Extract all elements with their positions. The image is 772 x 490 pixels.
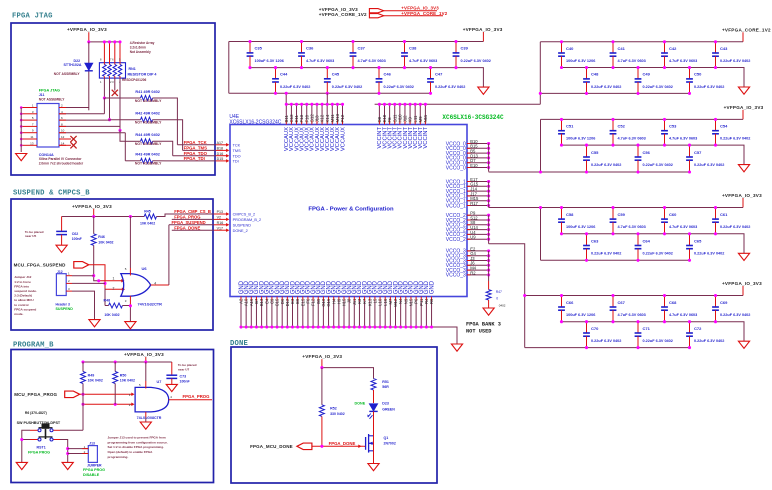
svg-text:R16: R16: [217, 221, 224, 225]
svg-text:E10: E10: [470, 163, 478, 168]
wire program top rail: [81, 360, 171, 363]
power net label +VFPGA_IO_3V3: [724, 105, 764, 120]
svg-text:near U5: near U5: [25, 234, 37, 238]
note to be placed near U5: [25, 230, 44, 238]
svg-text:4.7uF 6.3V 0603: 4.7uF 6.3V 0603: [618, 59, 646, 63]
svg-text:4.7uF 6.3V 0603: 4.7uF 6.3V 0603: [358, 59, 386, 63]
note jumper J13 usage: [108, 435, 168, 459]
svg-text:+VFPGA_IO_3V3: +VFPGA_IO_3V3: [302, 354, 342, 359]
wire FPGA pin TDI: [216, 157, 239, 163]
svg-text:R45: R45: [144, 209, 151, 213]
resistor R51: [371, 379, 389, 403]
svg-text:FPGA BANK 3: FPGA BANK 3: [466, 321, 501, 327]
ground symbol C73: [166, 384, 177, 391]
svg-text:FPGA_TDI: FPGA_TDI: [184, 156, 205, 161]
GND pin names and numbers: [239, 280, 436, 307]
wire top power rail: [525, 295, 743, 297]
capacitor C40: [558, 40, 595, 69]
svg-text:4.7uF 6.3V 0603: 4.7uF 6.3V 0603: [669, 137, 697, 141]
svg-text:2:3 (Default): 2:3 (Default): [14, 294, 32, 298]
svg-text:14: 14: [61, 141, 65, 145]
wire bottom power rail: [541, 259, 690, 261]
svg-text:C49: C49: [643, 72, 651, 77]
svg-text:N11: N11: [423, 114, 428, 122]
note to be placed near U7: [178, 363, 197, 371]
capacitor C67: [610, 294, 646, 323]
capacitor C58: [558, 206, 595, 235]
svg-text:C67: C67: [618, 300, 626, 305]
wire VCCAUX pin stubs: [285, 103, 344, 125]
svg-text:MCU_FPGA_PROG: MCU_FPGA_PROG: [14, 392, 57, 397]
svg-text:D22: D22: [74, 59, 81, 63]
svg-text:R9: R9: [429, 298, 434, 304]
svg-text:2.0mm 7x2 shrouded header: 2.0mm 7x2 shrouded header: [39, 162, 84, 166]
svg-text:4.7uF 6.3V 0603: 4.7uF 6.3V 0603: [618, 225, 646, 229]
wire ground mid rail: [562, 234, 745, 254]
capacitor C63: [583, 232, 621, 262]
svg-text:4.7uF 6.3V 0603: 4.7uF 6.3V 0603: [618, 137, 646, 141]
svg-text:C47: C47: [435, 72, 443, 77]
svg-text:D15: D15: [217, 157, 224, 161]
svg-text:4-Resistor Array: 4-Resistor Array: [130, 41, 155, 45]
svg-text:C54: C54: [720, 124, 728, 129]
svg-text:R43 49R 0402: R43 49R 0402: [135, 153, 160, 157]
svg-text:0.22uF 6.3V 0402: 0.22uF 6.3V 0402: [694, 85, 724, 89]
wire FPGA pin PROGRAM_B_2: [214, 216, 262, 222]
svg-text:0.22uF 6.3V 0402: 0.22uF 6.3V 0402: [384, 85, 414, 89]
wire done top rail: [320, 366, 373, 379]
capacitor C39: [453, 40, 491, 69]
svg-text:C72: C72: [694, 326, 702, 331]
svg-text:C52: C52: [618, 124, 626, 129]
wire riser pin6 to R42 row: [109, 119, 111, 121]
capacitor C70: [583, 320, 621, 349]
svg-text:U7: U7: [157, 380, 162, 384]
svg-text:C63: C63: [591, 238, 599, 243]
wire left vertical power link: [539, 42, 541, 94]
wire bottom power rail: [229, 92, 431, 94]
wire bottom power rail: [540, 92, 689, 94]
svg-text:3.2x1.6mm: 3.2x1.6mm: [130, 46, 146, 50]
capacitor C42: [661, 40, 697, 69]
svg-text:C68: C68: [669, 300, 677, 305]
svg-text:RESISTOR DIP 4: RESISTOR DIP 4: [128, 72, 158, 76]
capacitor C43: [712, 40, 750, 69]
svg-text:R48: R48: [104, 298, 111, 302]
wire riser pin10 to R43 row: [124, 133, 126, 161]
svg-text:VCCAUX: VCCAUX: [340, 127, 346, 151]
wire R50 leg: [114, 384, 116, 405]
wire GND collector rail: [241, 327, 457, 344]
svg-text:0.22uF 6.3V 0402: 0.22uF 6.3V 0402: [280, 85, 310, 89]
svg-text:XC6SLX16-3CSG324C: XC6SLX16-3CSG324C: [442, 114, 504, 121]
svg-text:XC6SLX16-2CSG324C: XC6SLX16-2CSG324C: [229, 119, 281, 125]
svg-text:P12: P12: [340, 114, 345, 122]
note jumper J12 usage: [14, 275, 37, 316]
capacitor C59: [610, 206, 646, 235]
wire R44 to output row: [153, 141, 173, 155]
svg-text:RN1: RN1: [129, 67, 136, 71]
no-connect X on RN1 pin: [112, 90, 118, 96]
svg-text:TDI: TDI: [233, 160, 239, 164]
wire gate input 2 row: [81, 403, 134, 407]
svg-text:0.22uF 6.3V 0402: 0.22uF 6.3V 0402: [591, 339, 621, 343]
connector J11 left pins: [20, 104, 37, 153]
svg-text:VCCO_2: VCCO_2: [446, 237, 466, 243]
svg-text:12: 12: [61, 135, 65, 139]
wire top power rail: [229, 41, 484, 43]
ground symbol CORE bank: [738, 87, 749, 94]
ground symbol Q1: [368, 464, 379, 471]
svg-text:PROGRAM_B_2: PROGRAM_B_2: [233, 218, 262, 222]
wire RN1 output stubs: [103, 78, 122, 132]
svg-text:0.22uF 6.3V 0402: 0.22uF 6.3V 0402: [694, 163, 724, 167]
capacitor C57: [686, 144, 724, 174]
svg-text:C40: C40: [566, 46, 574, 51]
svg-text:DISABLE: DISABLE: [83, 473, 100, 477]
svg-text:FPGA JTAG: FPGA JTAG: [39, 89, 60, 93]
wire top power rail: [540, 41, 743, 43]
ground symbol switch right: [62, 462, 73, 469]
connector J11 labels: [39, 89, 66, 102]
svg-text:MCU_FPGA_SUSPEND: MCU_FPGA_SUSPEND: [14, 263, 67, 268]
svg-text:4.7uF 6.3V 0603: 4.7uF 6.3V 0603: [669, 225, 697, 229]
svg-text:C66: C66: [566, 300, 574, 305]
svg-text:+VFPGA_CORE_1V2: +VFPGA_CORE_1V2: [319, 12, 367, 17]
svg-text:1: 1: [113, 276, 115, 280]
svg-text:PROGRAM_B: PROGRAM_B: [13, 342, 54, 350]
svg-text:programming.: programming.: [108, 455, 129, 459]
svg-text:C56: C56: [643, 150, 651, 155]
svg-text:10K 0402: 10K 0402: [140, 222, 155, 226]
svg-text:4.7uF 6.3V 0603: 4.7uF 6.3V 0603: [669, 313, 697, 317]
svg-text:11: 11: [30, 135, 33, 139]
capacitor C65: [686, 232, 724, 262]
svg-text:C59: C59: [618, 212, 626, 217]
wire switch left to ground: [20, 430, 30, 462]
net label FPGA_PROG output: [169, 394, 212, 400]
net label FPGA_TCK: [177, 140, 215, 145]
section box FPGA JTAG: [11, 23, 215, 175]
svg-text:C71: C71: [643, 326, 651, 331]
svg-text:C46: C46: [384, 72, 392, 77]
resistor R50: [113, 362, 135, 384]
resistor R42: [110, 112, 163, 125]
wire VCCO_3 pin stubs and bus: [446, 246, 490, 281]
svg-text:D16: D16: [217, 152, 224, 156]
wire VCCINT rail: [375, 103, 541, 105]
svg-text:FPGA_TMS: FPGA_TMS: [184, 146, 208, 151]
svg-text:C60: C60: [669, 212, 677, 217]
OR gate U6: [113, 266, 163, 306]
svg-text:NOT ASSEMBLY: NOT ASSEMBLY: [135, 162, 162, 166]
svg-text:SW PUSHBUTTON-DPST: SW PUSHBUTTON-DPST: [17, 421, 61, 425]
capacitor C62: [56, 217, 82, 246]
svg-text:C39: C39: [461, 46, 469, 51]
svg-text:+VFPGA_IO_3V3: +VFPGA_IO_3V3: [724, 105, 764, 110]
capacitor C68: [661, 294, 697, 323]
resistor R44: [125, 133, 162, 146]
svg-text:C64: C64: [643, 238, 651, 243]
wire FPGA pin TDO: [216, 152, 241, 158]
svg-text:+VFPGA_IO_3V3: +VFPGA_IO_3V3: [124, 352, 164, 357]
svg-text:FPGA_SUSPEND: FPGA_SUSPEND: [172, 220, 206, 225]
power net label +VFPGA_IO_3V3: [722, 281, 762, 296]
svg-text:0.22uF 6.3V 0402: 0.22uF 6.3V 0402: [643, 339, 673, 343]
ground symbol VCCO_2 bank: [738, 341, 749, 348]
capacitor C55: [583, 144, 621, 174]
wire VCCO_0 pin stubs and bus: [446, 139, 490, 172]
capacitor C56: [635, 144, 673, 174]
svg-text:Set 1:2 to disable FPGA progra: Set 1:2 to disable FPGA programming.: [108, 445, 165, 449]
power net label +VFPGA_IO_3V3 (JTAG): [67, 27, 107, 42]
capacitor C41: [610, 40, 646, 69]
wire FPGA_DONE to gate: [312, 441, 364, 448]
jumper J13: [68, 442, 105, 477]
svg-text:C70: C70: [591, 326, 599, 331]
capacitor C46: [376, 66, 414, 95]
svg-text:C38: C38: [409, 46, 417, 51]
ground symbol central IO bank: [478, 87, 489, 94]
svg-text:C43: C43: [720, 46, 728, 51]
svg-text:TMS: TMS: [233, 149, 241, 153]
svg-text:P13: P13: [217, 210, 223, 214]
wire VCCAUX rail: [286, 103, 342, 105]
svg-text:NOT ASSEMBLY: NOT ASSEMBLY: [135, 99, 162, 103]
wire left vertical power link: [540, 208, 542, 261]
resistor R43: [125, 153, 162, 166]
svg-text:C62: C62: [72, 232, 79, 236]
svg-text:C37: C37: [358, 46, 366, 51]
wire U7 VCC: [145, 362, 147, 389]
FPGA U4E reference labels: [229, 114, 281, 126]
ground symbol U6: [125, 322, 136, 329]
svg-text:U6: U6: [142, 266, 148, 271]
wire FPGA pin SUSPEND: [214, 221, 252, 227]
svg-text:V2: V2: [217, 216, 221, 220]
ground symbol VCCO_3: [483, 308, 494, 315]
connector J11 body: [37, 104, 59, 148]
svg-text:Xilinx Parallel IV Connector: Xilinx Parallel IV Connector: [39, 157, 83, 161]
capacitor C51: [558, 118, 595, 147]
wire R42 to output row: [153, 120, 183, 151]
wire switch top pole to R49 leg: [60, 429, 83, 431]
svg-text:4.7uF 6.3V 0603: 4.7uF 6.3V 0603: [669, 59, 697, 63]
svg-text:C58: C58: [566, 212, 574, 217]
power net label +VFPGA_IO_3V3 (suspend): [72, 204, 112, 217]
svg-text:C42: C42: [669, 46, 677, 51]
power net label +VFPGA_IO_3V3: [463, 27, 503, 42]
wire top power rail: [541, 207, 744, 209]
section box SUSPEND & CMPCS_B: [11, 199, 213, 330]
svg-text:330 0402: 330 0402: [330, 412, 345, 416]
svg-text:NOT ASSEMBLY: NOT ASSEMBLY: [135, 142, 162, 146]
net label FPGA_SUSPEND: [169, 220, 214, 225]
svg-text:+VFPGA_IO_3V3: +VFPGA_IO_3V3: [463, 27, 503, 32]
wire MCU_FPGA_PROG to gate input 1: [80, 393, 135, 397]
svg-text:7 6: 7 6: [110, 58, 114, 62]
wire riser pin4 to R41 row: [103, 98, 105, 114]
svg-text:R41 49R 0402: R41 49R 0402: [135, 90, 160, 94]
svg-text:100uF 6.3V 1206: 100uF 6.3V 1206: [255, 59, 284, 63]
capacitor C73: [166, 362, 190, 384]
connector J12: [56, 270, 106, 320]
svg-text:R44 49R 0402: R44 49R 0402: [135, 133, 160, 137]
svg-text:VCCO_3: VCCO_3: [446, 273, 466, 279]
svg-text:56R: 56R: [382, 385, 389, 389]
wire ground mid rail: [562, 145, 745, 165]
svg-text:J11: J11: [39, 93, 45, 97]
svg-text:NOT ASSEMBLY: NOT ASSEMBLY: [135, 121, 162, 125]
svg-text:2 3: 2 3: [110, 80, 114, 84]
capacitor C36: [298, 40, 334, 69]
svg-text:C35: C35: [255, 46, 263, 51]
svg-text:TDO: TDO: [233, 154, 241, 158]
svg-text:+VFPGA_IO_3V3: +VFPGA_IO_3V3: [722, 193, 762, 198]
capacitor C72: [686, 320, 724, 349]
svg-text:R46: R46: [98, 235, 105, 239]
svg-text:FPGA into: FPGA into: [14, 284, 29, 288]
capacitor C49: [635, 66, 673, 95]
svg-text:2: 2: [113, 287, 115, 291]
wire FPGA pin DONE_2: [214, 226, 248, 232]
connector J11 right pins: [59, 104, 125, 146]
capacitor C52: [610, 118, 646, 147]
AND gate U7: [129, 380, 173, 420]
wire R46 to gate input 1: [92, 245, 124, 282]
capacitor C48: [583, 66, 621, 95]
resistor R41: [104, 90, 162, 103]
resistor R48: [104, 288, 131, 317]
svg-text:0402: 0402: [499, 304, 506, 308]
section box PROGRAM_B: [11, 350, 214, 483]
svg-text:SUSPEND: SUSPEND: [56, 307, 74, 311]
svg-text:0.22uF 6.3V 0402: 0.22uF 6.3V 0402: [694, 339, 724, 343]
svg-text:near U7: near U7: [178, 367, 190, 371]
net label FPGA_TDI: [166, 156, 216, 161]
capacitor C69: [712, 294, 750, 323]
connector CON14A labels: [39, 153, 84, 166]
svg-text:0.22uF 6.3V 0402: 0.22uF 6.3V 0402: [643, 163, 673, 167]
svg-text:C50: C50: [694, 72, 702, 77]
wire left vertical power link: [524, 296, 526, 348]
capacitor C47: [427, 66, 465, 95]
svg-text:RST1: RST1: [37, 446, 46, 450]
svg-text:FPGA_PROG: FPGA_PROG: [174, 215, 200, 220]
wire riser pin8 to R44 row: [120, 130, 125, 141]
section box DONE: [231, 347, 437, 483]
svg-text:NOT ASSEMBLY: NOT ASSEMBLY: [39, 98, 66, 102]
svg-text:to control: to control: [14, 303, 28, 307]
resistor array RN1: [99, 40, 157, 84]
power flag +VFPGA_CORE_1V2: [319, 11, 448, 18]
wire U6 VCC: [129, 217, 131, 276]
svg-text:74V1G32CTR: 74V1G32CTR: [138, 301, 163, 306]
svg-text:FPGA PROG: FPGA PROG: [83, 468, 105, 472]
capacitor C37: [350, 40, 386, 69]
svg-text:Not Assembly: Not Assembly: [130, 50, 151, 54]
wire VCCAUX feed drops: [285, 92, 328, 105]
power net label +VFPGA_CORE_1V2: [722, 27, 771, 42]
svg-text:0.22uF 6.3V 0402: 0.22uF 6.3V 0402: [720, 137, 750, 141]
diode D22: [54, 59, 93, 76]
svg-text:to allow MCU: to allow MCU: [14, 298, 34, 302]
svg-text:13: 13: [30, 141, 34, 145]
ground symbol C62: [56, 245, 67, 252]
svg-text:FPGA PROG: FPGA PROG: [28, 451, 50, 455]
power net label +VFPGA_IO_3V3 (done): [302, 354, 342, 367]
svg-text:0.22uF 6.3V 0402: 0.22uF 6.3V 0402: [591, 163, 621, 167]
capacitor C45: [324, 66, 362, 95]
svg-text:CMPCS_B_2: CMPCS_B_2: [233, 213, 256, 217]
wire MCU_FPGA_SUSPEND to gate input 2: [89, 265, 125, 291]
svg-text:Q1: Q1: [384, 436, 389, 440]
svg-text:10: 10: [61, 129, 65, 133]
capacitor C54: [712, 118, 750, 147]
svg-text:2N7002: 2N7002: [384, 441, 396, 445]
svg-text:10K 0402: 10K 0402: [88, 379, 103, 383]
ground symbol VCCO_0 bank: [738, 165, 749, 172]
wire VCCO_2 power feed: [489, 244, 527, 297]
svg-text:R6 (370-4827): R6 (370-4827): [25, 411, 47, 415]
wire VCCO_1 pin stubs and bus: [446, 177, 490, 209]
wire FPGA pin TCK: [216, 141, 241, 147]
svg-text:mode.: mode.: [14, 312, 23, 316]
net label FPGA_TMS: [183, 146, 216, 151]
svg-text:C44: C44: [280, 72, 288, 77]
svg-text:10K 0402: 10K 0402: [120, 379, 135, 383]
wire VCCINT pin stubs: [378, 103, 427, 125]
wire R49 leg to switch: [82, 384, 84, 431]
svg-text:SUSPEND & CMPCS_B: SUSPEND & CMPCS_B: [13, 190, 90, 198]
capacitor C60: [661, 206, 697, 235]
svg-text:100uF 6.3V 1206: 100uF 6.3V 1206: [566, 313, 595, 317]
port MCU_FPGA_SUSPEND: [14, 262, 89, 269]
svg-text:C45: C45: [332, 72, 340, 77]
VCCAUX pin names and numbers: [284, 113, 346, 151]
svg-text:FPGA_TCK: FPGA_TCK: [184, 140, 208, 145]
wire switch right to ground: [60, 440, 69, 463]
ground symbol J11: [16, 154, 27, 161]
svg-text:R42 49R 0402: R42 49R 0402: [135, 112, 160, 116]
svg-text:NOT ASSEMBLY: NOT ASSEMBLY: [54, 72, 81, 76]
svg-text:D23: D23: [382, 401, 389, 405]
svg-text:0.22uF 6.3V 0402: 0.22uF 6.3V 0402: [643, 85, 673, 89]
svg-text:C69: C69: [720, 300, 728, 305]
resistor R45: [140, 209, 157, 225]
svg-text:C51: C51: [566, 124, 574, 129]
wire VCCINT feed riser: [539, 92, 542, 104]
svg-text:R47: R47: [496, 290, 502, 294]
wire bottom power rail: [541, 171, 690, 173]
switch RST1: [28, 423, 60, 454]
svg-text:10K 0402: 10K 0402: [98, 240, 113, 244]
svg-text:Header 3: Header 3: [56, 302, 70, 306]
resistor R52: [319, 368, 344, 447]
net label FPGA_CMP_CS_B: [157, 209, 214, 216]
note resistor array: [130, 41, 155, 54]
wire ground mid rail: [562, 68, 745, 88]
capacitor C71: [635, 320, 673, 349]
svg-text:DONE: DONE: [355, 401, 366, 405]
ground symbol J12: [89, 320, 100, 327]
svg-text:100nF: 100nF: [72, 237, 83, 241]
wire U6 ground leg: [129, 296, 132, 322]
net label FPGA_TDO: [173, 151, 216, 156]
svg-text:R2: R2: [470, 270, 476, 275]
capacitor C38: [401, 40, 437, 69]
svg-text:FPGA suspend: FPGA suspend: [14, 307, 36, 311]
